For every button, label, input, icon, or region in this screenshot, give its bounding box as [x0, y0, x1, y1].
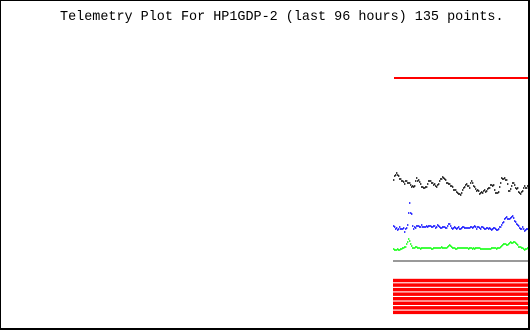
red channel-1 line: [394, 77, 528, 79]
blue channel-3 trace: [393, 203, 528, 232]
title text: [60, 11, 504, 24]
green channel-4 trace: [393, 239, 528, 250]
red digital-bit stripes: [393, 279, 528, 282]
gray baseline: [393, 260, 528, 262]
black channel-2 trace: [393, 173, 528, 195]
